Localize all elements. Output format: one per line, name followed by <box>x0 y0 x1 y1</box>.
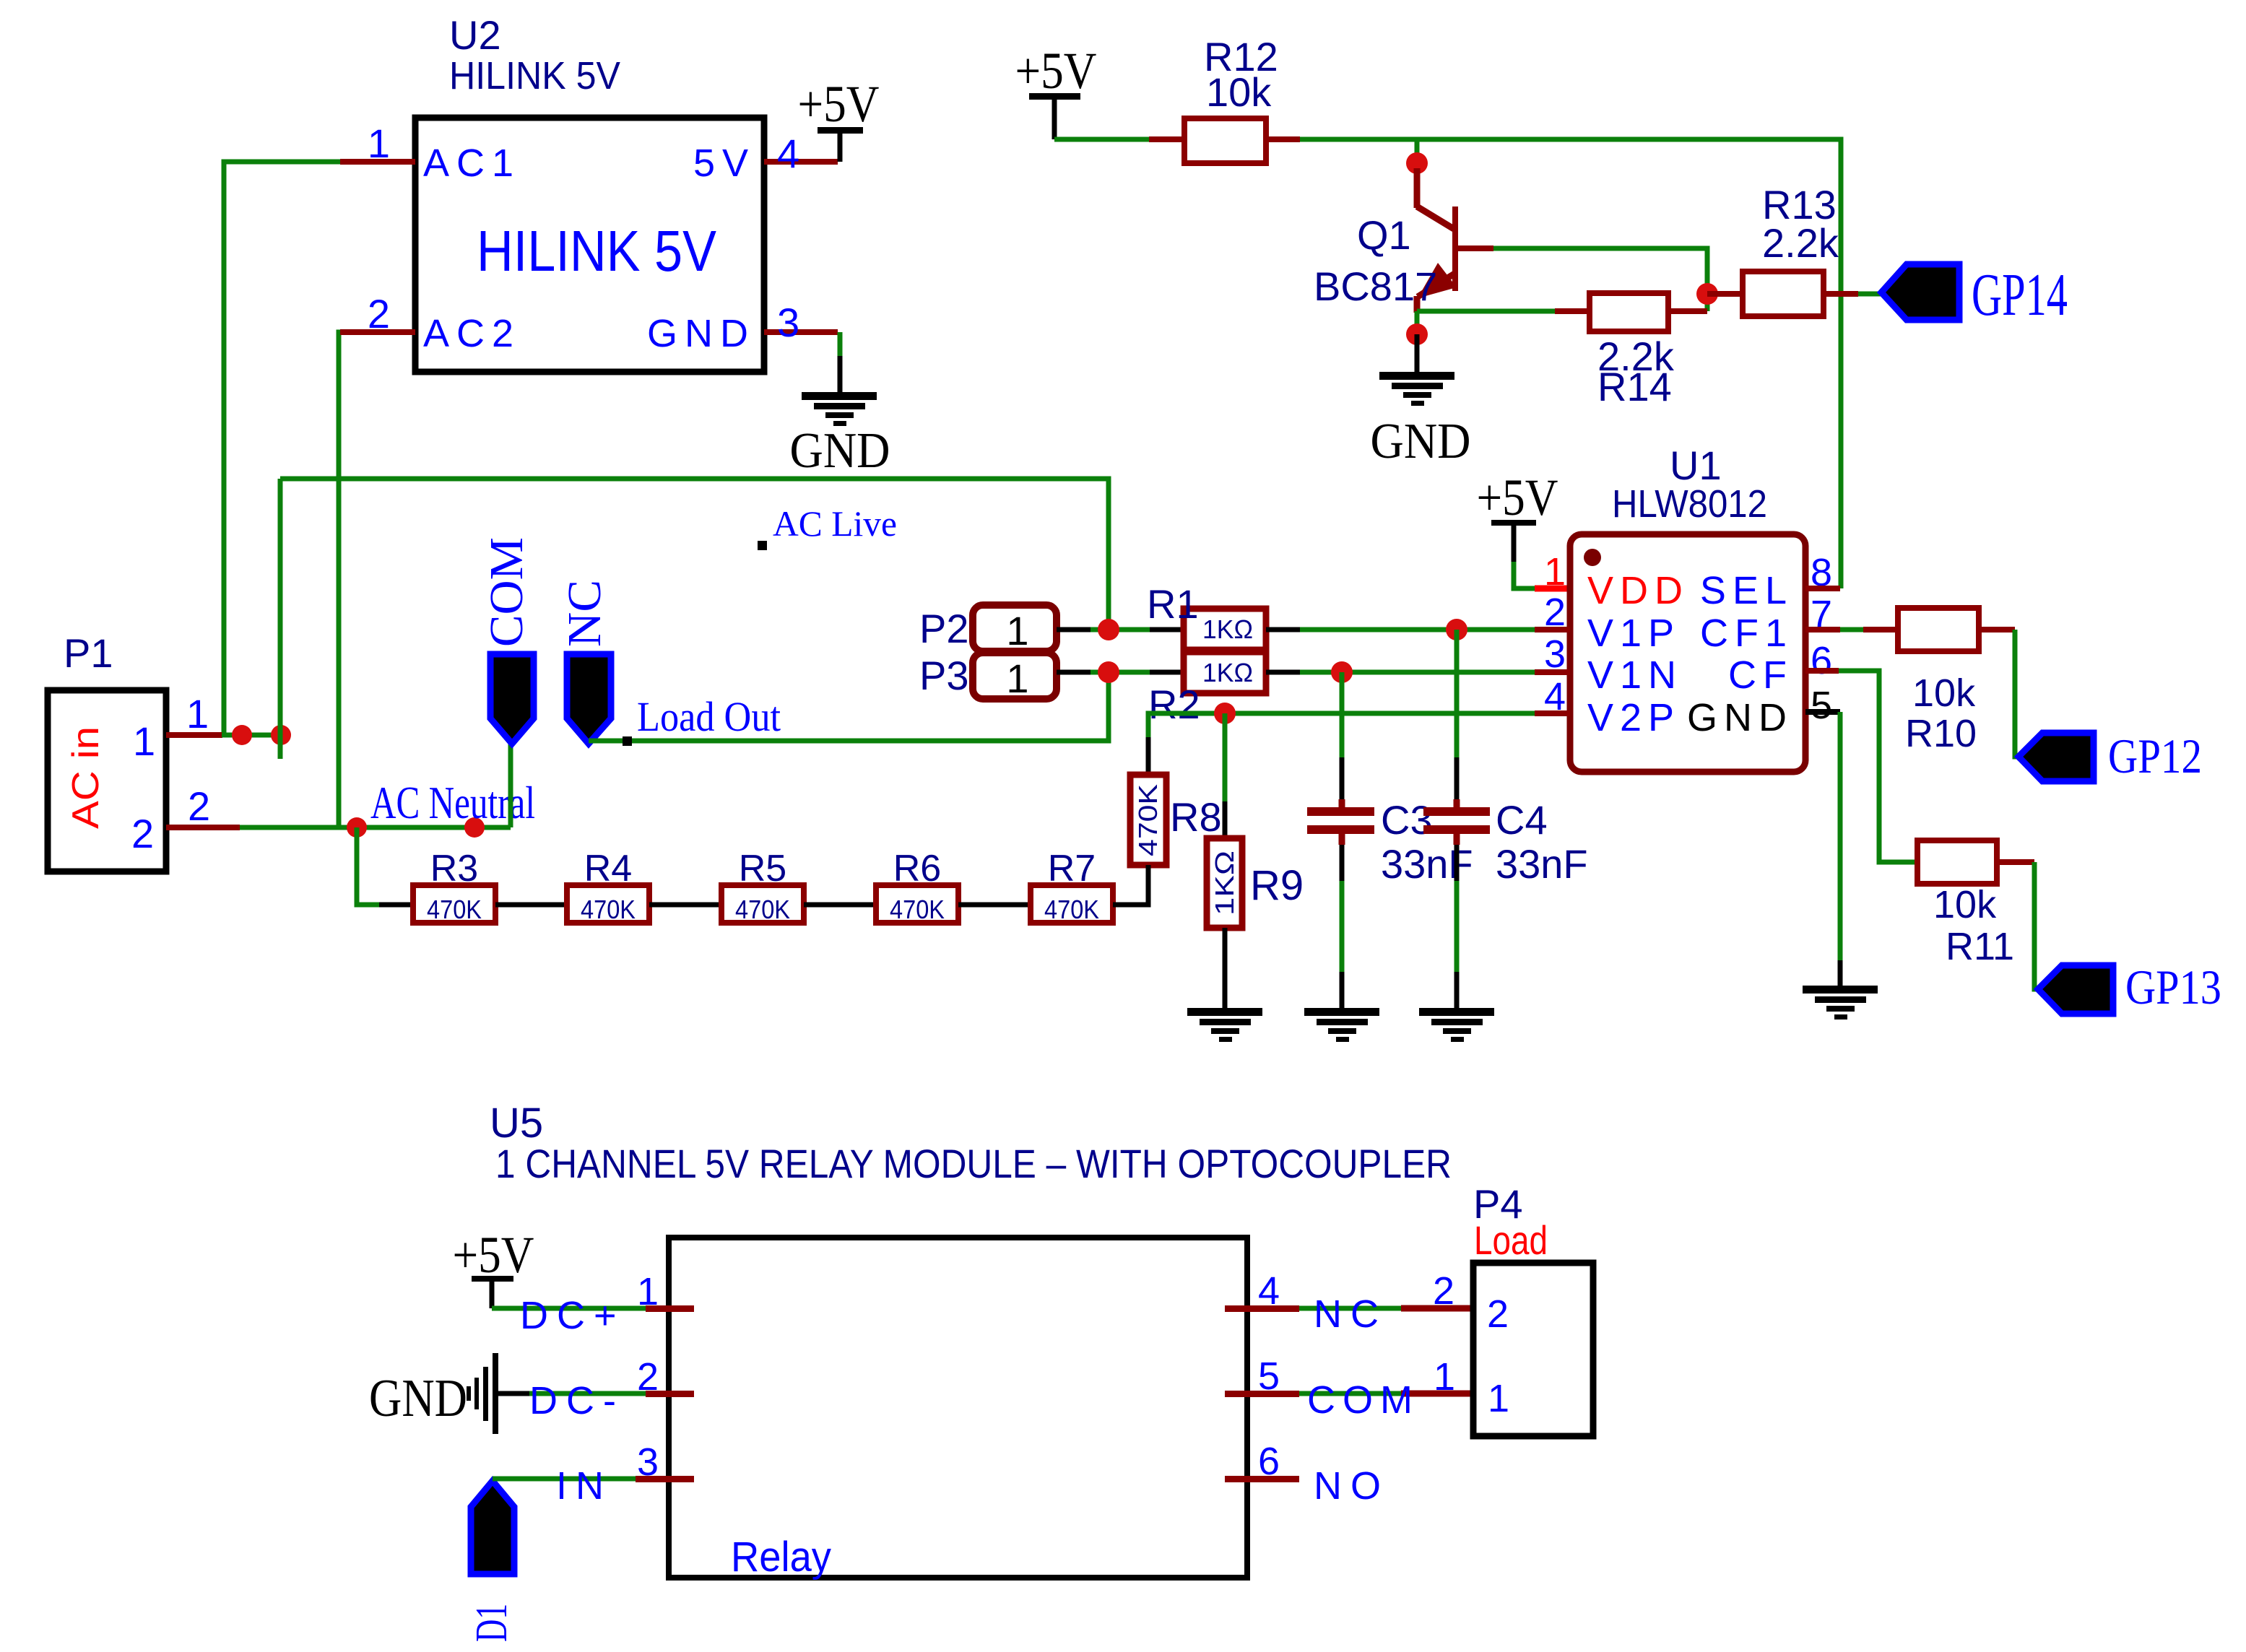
svg-text:2: 2 <box>1544 591 1566 634</box>
U1 pin 6 stub <box>1805 668 1839 674</box>
svg-text:+5V: +5V <box>798 75 880 133</box>
R11 right lead <box>1997 859 2034 865</box>
svg-text:V1P: V1P <box>1587 612 1681 655</box>
svg-text:2: 2 <box>637 1355 659 1399</box>
svg-text:1: 1 <box>1488 1377 1509 1420</box>
transistor Q1 BC817 <box>1417 168 1458 313</box>
U1 pin 4 stub <box>1535 710 1570 716</box>
svg-text:1: 1 <box>1006 656 1028 701</box>
svg-text:6: 6 <box>1811 639 1832 682</box>
wire R12 to SEL vertical <box>1300 139 1841 588</box>
wire P3 to R2 <box>1091 670 1150 675</box>
connector D1 <box>471 1481 514 1574</box>
U5 pin 2 stub <box>646 1391 694 1397</box>
svg-text:Relay: Relay <box>731 1534 831 1581</box>
svg-text:GND: GND <box>1371 414 1471 469</box>
U5 pin 4 stub <box>1225 1305 1299 1312</box>
wire R10 to GP12 <box>2015 630 2021 757</box>
wire AC Live vertical from P1 <box>278 479 283 735</box>
resistor R11 <box>1917 840 1997 884</box>
svg-text:C3: C3 <box>1381 797 1433 843</box>
resistor R5 <box>721 885 804 923</box>
wire down to R3 <box>357 827 379 905</box>
P1 pin 2 stub <box>166 825 240 830</box>
svg-text:2.2k: 2.2k <box>1762 220 1839 266</box>
wire pin7 to R10 <box>1840 627 1863 632</box>
connector COM <box>490 654 534 744</box>
svg-text:+5V: +5V <box>453 1226 534 1284</box>
resistor R9 <box>1207 838 1242 928</box>
svg-text:5: 5 <box>1258 1355 1280 1398</box>
R1 right lead <box>1266 627 1300 632</box>
junction dot R9 net <box>1214 703 1236 724</box>
junction dot C3 net <box>1331 661 1353 683</box>
svg-text:R7: R7 <box>1048 848 1096 890</box>
U5 pin 3 stub <box>636 1476 694 1482</box>
wire pin6 to R11 <box>1839 671 1917 862</box>
svg-text:3: 3 <box>777 300 799 345</box>
wire COM connector drop <box>508 744 513 827</box>
svg-text:10k: 10k <box>1206 69 1272 115</box>
svg-text:10k: 10k <box>1912 671 1976 715</box>
junction dot P1 pin1 a <box>232 725 252 745</box>
svg-text:COM: COM <box>1307 1378 1420 1422</box>
capacitor C4 wires bottom <box>1454 834 1460 845</box>
svg-text:470K: 470K <box>1133 784 1163 856</box>
svg-text:R5: R5 <box>739 848 786 890</box>
wire NC to P4 <box>1299 1306 1401 1311</box>
svg-text:V1N: V1N <box>1587 653 1683 697</box>
resistor R2 <box>1184 652 1266 693</box>
connector GP14 <box>1881 264 1959 320</box>
R14 right lead <box>1668 308 1707 314</box>
svg-text:5V: 5V <box>693 142 755 185</box>
resistor R10 <box>1898 608 1979 651</box>
R13 right lead <box>1824 291 1858 297</box>
capacitor C4 wires top <box>1454 630 1460 757</box>
svg-text:COM: COM <box>480 537 533 647</box>
svg-text:1: 1 <box>637 1270 659 1313</box>
U1 pin 2 stub <box>1535 627 1570 632</box>
Load Out anchor square <box>623 736 632 746</box>
base wire Q1 to R13/R14 node <box>1458 245 1493 251</box>
U5 pin 6 stub <box>1225 1476 1299 1482</box>
AC Live anchor square <box>758 541 767 550</box>
svg-text:AC Live: AC Live <box>773 503 897 544</box>
wire AC1 net green <box>224 162 340 735</box>
svg-text:IN: IN <box>556 1464 612 1508</box>
wire DC- <box>498 1391 529 1396</box>
resistor R1 <box>1184 609 1266 650</box>
svg-text:VDD: VDD <box>1587 569 1689 612</box>
svg-text:+5V: +5V <box>1015 42 1097 100</box>
svg-text:AC in: AC in <box>65 726 107 829</box>
svg-text:R8: R8 <box>1170 794 1222 840</box>
svg-text:HLW8012: HLW8012 <box>1612 482 1767 526</box>
resistor R3 <box>413 885 495 923</box>
U1 pin 3 stub <box>1535 669 1570 675</box>
svg-text:R6: R6 <box>893 848 941 890</box>
U1 pin1 marker dot <box>1584 549 1601 566</box>
connector GP12 <box>2019 733 2094 781</box>
U5 pin 1 stub <box>646 1305 694 1312</box>
wire P1 pin1 green <box>222 733 281 738</box>
svg-text:R2: R2 <box>1148 682 1200 727</box>
capacitor C3 wires top <box>1340 672 1345 757</box>
svg-text:R1: R1 <box>1147 581 1199 627</box>
svg-text:AC2: AC2 <box>423 312 521 355</box>
R8 bottom lead <box>1146 865 1151 905</box>
capacitor C3 wires bottom <box>1339 834 1345 845</box>
wire Load Out <box>589 672 1109 741</box>
junction dot AC neutral b <box>464 817 485 838</box>
svg-text:Load Out: Load Out <box>637 693 781 740</box>
svg-text:3: 3 <box>637 1440 659 1484</box>
svg-text:1: 1 <box>368 121 390 166</box>
ground symbol under U2 <box>802 392 877 426</box>
junction dot AC neutral a <box>347 817 367 838</box>
svg-text:2: 2 <box>188 783 210 829</box>
svg-text:BC817: BC817 <box>1314 264 1437 309</box>
svg-text:U2: U2 <box>449 12 501 58</box>
svg-text:AC1: AC1 <box>423 142 521 185</box>
wire R7 to R8 <box>1113 865 1148 905</box>
wire R2 to V1N <box>1300 670 1535 675</box>
U1 pin 1 lead red <box>1535 586 1570 592</box>
connector NC <box>567 654 611 744</box>
svg-text:U1: U1 <box>1670 443 1722 488</box>
svg-text:DC+: DC+ <box>520 1294 625 1337</box>
wire P2 to R1 <box>1091 627 1150 632</box>
svg-text:33nF: 33nF <box>1496 841 1588 887</box>
svg-text:2: 2 <box>131 811 154 856</box>
svg-text:GND: GND <box>1687 696 1793 739</box>
resistor R4 <box>567 885 649 923</box>
U1 pin 8 stub <box>1805 586 1840 591</box>
connector P2 body <box>973 605 1057 651</box>
svg-text:2: 2 <box>1433 1269 1454 1313</box>
svg-text:P2: P2 <box>919 606 969 651</box>
svg-text:4: 4 <box>1544 675 1566 718</box>
U2 body box <box>415 118 764 372</box>
U2 pin 3 stub <box>764 329 838 335</box>
emitter to ground <box>1415 311 1420 336</box>
svg-text:2: 2 <box>368 291 390 336</box>
ground symbol under R9 <box>1187 1008 1262 1042</box>
resistor R12 <box>1184 118 1266 163</box>
svg-text:GP12: GP12 <box>2108 729 2202 783</box>
svg-text:1: 1 <box>1544 550 1566 594</box>
R9 top wire <box>1223 713 1228 801</box>
R8 top lead <box>1146 737 1151 775</box>
junction dot P2 AC live <box>1098 619 1119 640</box>
wire R13 to GP14 <box>1858 292 1883 297</box>
svg-text:D1: D1 <box>467 1604 516 1642</box>
connector P4 body <box>1473 1263 1593 1436</box>
svg-text:P3: P3 <box>919 653 969 698</box>
wire R5-R6 <box>804 903 876 908</box>
junction dot P1 pin1 b <box>271 725 291 745</box>
svg-text:R9: R9 <box>1250 862 1304 909</box>
R10 right lead <box>1979 627 2015 632</box>
svg-text:HILINK 5V: HILINK 5V <box>477 219 717 283</box>
svg-text:4: 4 <box>1258 1269 1280 1313</box>
wire AC Neutral horizontal <box>240 825 511 830</box>
svg-text:1: 1 <box>186 691 209 736</box>
svg-text:R3: R3 <box>430 848 478 890</box>
U2 pin 4 stub <box>764 159 838 165</box>
wire DC+ <box>492 1306 648 1311</box>
svg-text:SEL: SEL <box>1700 569 1793 612</box>
svg-text:4: 4 <box>777 131 799 176</box>
R9 bottom lead <box>1223 928 1228 1009</box>
U2 pin 1 AC1 stub <box>340 159 415 165</box>
svg-text:1: 1 <box>1006 608 1028 653</box>
wire R4-R5 <box>649 903 721 908</box>
svg-text:470K: 470K <box>581 895 636 924</box>
U1 body box <box>1570 534 1805 772</box>
svg-text:3: 3 <box>1544 632 1566 676</box>
junction dot P3 load out <box>1098 661 1119 683</box>
svg-text:R11: R11 <box>1946 925 2014 968</box>
svg-text:1KΩ: 1KΩ <box>1202 658 1253 687</box>
svg-text:R14: R14 <box>1597 364 1672 409</box>
ground symbol under Q1 <box>1379 372 1454 406</box>
P3 stub <box>1057 670 1091 675</box>
svg-text:NC: NC <box>1314 1292 1387 1336</box>
svg-text:2: 2 <box>1487 1292 1509 1336</box>
svg-text:GND: GND <box>369 1369 467 1428</box>
svg-text:CF1: CF1 <box>1700 612 1793 655</box>
svg-text:470K: 470K <box>1044 895 1099 924</box>
svg-text:470K: 470K <box>890 895 945 924</box>
wire COM to P4 <box>1299 1391 1401 1396</box>
svg-text:HILINK 5V: HILINK 5V <box>449 54 620 97</box>
svg-text:GP14: GP14 <box>1972 261 2068 329</box>
svg-text:NO: NO <box>1314 1464 1389 1508</box>
wire stub below junction b <box>278 735 283 759</box>
junction dot Q1 emitter <box>1406 323 1428 345</box>
resistor R8 <box>1130 775 1166 865</box>
svg-text:10k: 10k <box>1933 883 1997 926</box>
wire V2P net <box>1148 713 1535 737</box>
resistor R7 <box>1031 885 1113 923</box>
wire pin5 to ground <box>1838 712 1843 960</box>
P2 stub <box>1057 627 1091 632</box>
svg-text:DC-: DC- <box>529 1379 625 1422</box>
capacitor C3 plates <box>1307 807 1374 816</box>
ground symbol under C3 <box>1304 1008 1379 1042</box>
wire R11 to GP13 <box>2034 862 2040 989</box>
wire R13 node lead <box>1707 291 1743 297</box>
wire R6-R7 <box>958 903 1031 908</box>
wire IN <box>493 1477 636 1482</box>
ground symbol right <box>1803 986 1878 1020</box>
wire R1 to V1P <box>1300 627 1535 632</box>
R2 left lead <box>1150 670 1184 675</box>
svg-text:R4: R4 <box>584 848 632 890</box>
svg-text:V2P: V2P <box>1587 696 1681 739</box>
svg-text:U5: U5 <box>490 1100 543 1147</box>
svg-text:1: 1 <box>133 718 155 764</box>
R12 left lead <box>1149 136 1184 142</box>
resistor R14 <box>1590 293 1668 331</box>
svg-text:5: 5 <box>1811 684 1832 727</box>
wire AC Live horizontal <box>280 479 1109 630</box>
U1 pin 5 stub black <box>1805 709 1840 715</box>
wire R3-R4 <box>495 903 567 908</box>
connector P1 body <box>48 690 166 871</box>
capacitor C4 plates <box>1423 807 1490 816</box>
svg-text:Load: Load <box>1474 1217 1548 1263</box>
svg-text:GP13: GP13 <box>2125 960 2221 1014</box>
P1 pin 1 stub <box>166 732 222 738</box>
svg-text:1 CHANNEL 5V RELAY MODULE – WI: 1 CHANNEL 5V RELAY MODULE – WITH OPTOCOU… <box>495 1141 1452 1186</box>
wire junction drop to Q1 <box>1415 139 1420 162</box>
U5 relay body box <box>669 1238 1247 1578</box>
emitter wire to R14 <box>1417 309 1555 314</box>
U1 pin 7 stub <box>1805 627 1840 632</box>
svg-text:GND: GND <box>790 423 890 479</box>
svg-text:+5V: +5V <box>1477 469 1558 526</box>
svg-text:GND: GND <box>647 312 755 355</box>
junction dot Q1 collector net <box>1406 152 1428 174</box>
wire AC2 net green vertical <box>339 332 340 827</box>
svg-text:C4: C4 <box>1496 797 1548 843</box>
R2 right lead <box>1266 670 1300 675</box>
svg-text:6: 6 <box>1258 1440 1280 1483</box>
connector P3 body <box>973 653 1057 699</box>
U2 pin 2 AC2 stub <box>340 329 415 335</box>
svg-text:NC: NC <box>558 580 611 647</box>
svg-text:1KΩ: 1KΩ <box>1210 851 1239 916</box>
svg-text:CF: CF <box>1728 653 1793 697</box>
svg-text:R10: R10 <box>1905 712 1977 755</box>
svg-text:470K: 470K <box>735 895 790 924</box>
ground symbol under C4 <box>1419 1008 1494 1042</box>
svg-text:P1: P1 <box>64 630 113 676</box>
svg-text:470K: 470K <box>427 895 482 924</box>
junction dot C4 net <box>1446 619 1467 640</box>
svg-text:Q1: Q1 <box>1357 212 1411 258</box>
U5 pin 5 stub <box>1225 1391 1299 1397</box>
wire into R3 <box>379 903 413 908</box>
R1 left lead <box>1150 627 1184 632</box>
wire +5V to R12 <box>1054 137 1149 142</box>
ground symbol left rotated <box>467 1353 498 1434</box>
resistor R6 <box>876 885 958 923</box>
connector GP13 <box>2038 965 2113 1014</box>
svg-text:1KΩ: 1KΩ <box>1202 614 1253 644</box>
junction dot R13/R14 node <box>1696 283 1718 305</box>
resistor R13 <box>1743 271 1824 316</box>
svg-text:1: 1 <box>1434 1355 1455 1399</box>
wire +5V to VDD <box>1514 562 1535 588</box>
wire U2 pin3 to ground <box>838 332 843 356</box>
R12 right lead <box>1266 136 1300 142</box>
